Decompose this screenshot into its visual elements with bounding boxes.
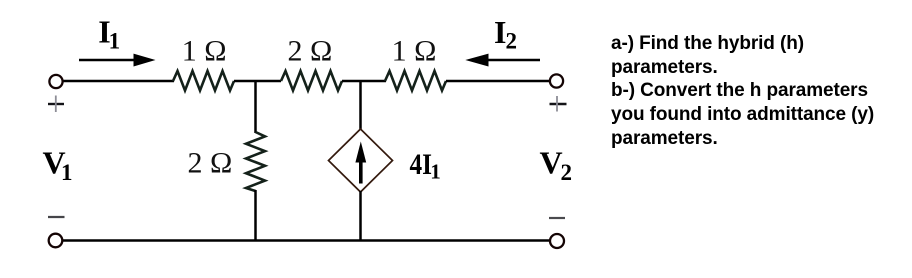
svg-text:4I: 4I [410, 148, 433, 181]
wire node B down to source [359, 81, 362, 130]
terminal port 1 minus (open circle bottom-left) [49, 234, 63, 248]
value label dependent source: 4I1 [410, 148, 441, 184]
terminal port 2 plus (open circle top-right) [550, 74, 563, 87]
polarity plus sign (port 1) [48, 96, 64, 113]
polarity minus sign (port 1) [48, 216, 65, 218]
label I2 (current into port 2) [494, 14, 517, 54]
resistor R4 2 Ohm (vertical shunt) [246, 132, 265, 191]
wire between node B and R3 [342, 80, 386, 83]
wire node A down to R4 [254, 81, 257, 133]
current arrow I2 (top right, pointing left) [465, 54, 540, 67]
wire R4 down to bottom rail [254, 190, 257, 241]
resistor R2 2 Ohm (top middle, horizontal) [281, 71, 342, 91]
svg-text:1 Ω: 1 Ω [182, 34, 227, 67]
svg-text:2: 2 [561, 160, 573, 185]
bottom rail wire [62, 239, 550, 242]
wire source down to bottom rail [359, 191, 362, 241]
wire R3 to port2+ [446, 80, 551, 83]
current arrow I1 (top left, pointing right) [79, 54, 156, 67]
svg-text:1: 1 [61, 160, 73, 185]
svg-text:1: 1 [109, 29, 121, 54]
label V2 (port 2 voltage) [540, 145, 573, 186]
label V1 (port 1 voltage) [43, 145, 73, 186]
polarity minus sign (port 2) [549, 217, 565, 219]
svg-text:1: 1 [430, 160, 441, 184]
resistor R1 1 Ohm (top left, horizontal) [173, 71, 234, 91]
svg-text:2 Ω: 2 Ω [288, 34, 333, 67]
svg-text:V: V [540, 145, 563, 181]
terminal port 1 plus (open circle top-left) [49, 75, 62, 88]
question text block [611, 32, 911, 150]
polarity plus sign (port 2) [550, 96, 567, 112]
resistor R3 1 Ohm (top right, horizontal) [385, 71, 446, 91]
terminal port 2 minus (open circle bottom-right) [550, 234, 564, 248]
label I1 (current into port 1) [98, 14, 120, 54]
dependent current source 4I1 (diamond) [329, 129, 393, 192]
svg-text:1 Ω: 1 Ω [392, 34, 437, 67]
svg-text:2: 2 [506, 29, 518, 54]
svg-text:2 Ω: 2 Ω [188, 146, 233, 179]
wire between R1 and node A [234, 80, 281, 83]
source arrow (inside diamond, pointing up) [355, 142, 366, 184]
wire top-left (port1+ to R1) [63, 80, 175, 83]
